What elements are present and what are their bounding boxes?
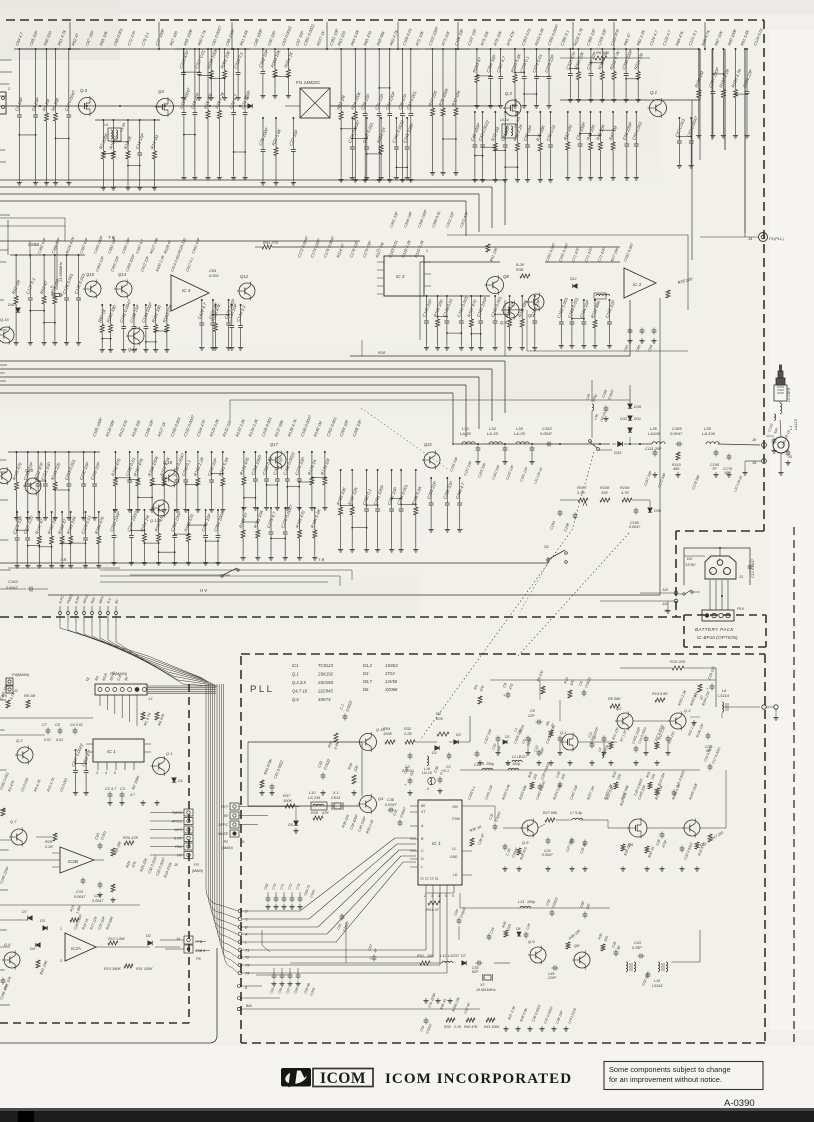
transistor Q15: [85, 281, 101, 297]
tier2 mid part R97: [101, 305, 103, 325]
svg-text:3: 3: [96, 771, 98, 775]
svg-text:P1(MAIN): P1(MAIN): [110, 671, 128, 676]
ic IC1 PLL TC9123: [418, 800, 462, 885]
wire P6 feeds: [160, 939, 184, 941]
svg-text:IC2B: IC2B: [68, 859, 78, 864]
resistor R15 220 pll: [672, 666, 684, 670]
wire pll top rail: [248, 741, 362, 743]
transistor Q5: [505, 100, 521, 116]
diode D42: [16, 308, 20, 312]
tier3 midL part R169: [187, 510, 189, 534]
tier1 gapA part R199: [210, 49, 212, 71]
svg-text:S1: S1: [544, 544, 549, 549]
transistor Q3 pll: [670, 713, 686, 729]
tier2 right part C152: [480, 296, 482, 319]
tier1 midE part R223: [476, 49, 478, 75]
capacitor C4 pll: [475, 752, 480, 754]
svg-text:Q.1: Q.1: [560, 730, 566, 735]
op-amp IC2A: [65, 933, 96, 961]
tier3 mid part R161: [222, 452, 224, 478]
wire filter line y444: [452, 443, 610, 445]
tier2 right part C145: [426, 296, 428, 319]
wire pll mid rail: [248, 805, 360, 807]
tier2 midB part C140: [231, 305, 233, 324]
main unit dashed border bottom: [0, 616, 684, 618]
svg-text:6: 6: [452, 894, 454, 898]
svg-text:0.0047: 0.0047: [385, 803, 398, 807]
tier1 midC part R24: [354, 49, 356, 112]
tier3 leftB part R154: [98, 512, 100, 536]
tier3 midB part R171: [243, 452, 245, 477]
wire ties tier1 gapB: [275, 75, 288, 77]
svg-text:Q2: Q2: [616, 706, 622, 711]
transistor Q2 mic: [17, 747, 33, 763]
wire ties tier2 rightB: [572, 318, 584, 320]
filter FI1 14M22C: [300, 88, 330, 118]
ic IC3: [384, 256, 424, 296]
svg-text:L15: L15: [654, 979, 661, 983]
wire J4 drop: [744, 120, 746, 237]
diode D1 main: [172, 778, 176, 782]
tier3 mid part C242: [211, 452, 213, 478]
svg-text:13.8V: 13.8V: [685, 562, 696, 567]
tier1 midC part R22: [340, 49, 342, 112]
wire af mid: [0, 859, 60, 861]
capacitor C165: [634, 509, 639, 511]
svg-text:HV: HV: [177, 854, 183, 858]
svg-text:V60: V60: [452, 805, 458, 809]
inductor L29 column: [592, 404, 594, 411]
svg-text:Q.3: Q.3: [684, 708, 691, 713]
tier3 left part C211: [37, 452, 39, 482]
wire bus tier1 left: [14, 48, 80, 50]
wire ties tier3 midBB: [243, 521, 258, 523]
tier1 right part C50: [550, 112, 552, 143]
wire tier2 feed: [255, 246, 262, 248]
svg-text:PLL: PLL: [250, 684, 274, 695]
tier1 midB part C26: [262, 118, 264, 148]
tier1 rightB part R42: [567, 112, 569, 142]
left edge clipped stubs: [0, 59, 12, 61]
tier1 left part R5: [46, 49, 48, 113]
svg-text:R18: R18: [378, 350, 386, 355]
svg-text:SSB&: SSB&: [28, 242, 39, 247]
diode D33: [618, 442, 623, 447]
gnd pll bottom: [505, 1026, 507, 1029]
capacitor C39 220: [408, 779, 413, 781]
wire HV rail: [48, 594, 660, 596]
tier1 gapC part R214: [637, 49, 639, 72]
tier2 right part R108: [509, 296, 511, 319]
tier3 midL part C243: [113, 510, 115, 534]
tier2 midB part R105: [214, 305, 216, 324]
svg-text:R41 100K: R41 100K: [484, 1025, 500, 1029]
svg-text:0.0047: 0.0047: [92, 899, 104, 903]
tier3 midC part C282: [391, 470, 393, 507]
capacitor C53 82P: [477, 961, 479, 966]
svg-text:C: C: [421, 849, 424, 853]
capacitor C20 5P: [706, 734, 711, 736]
svg-text:APC: APC: [173, 828, 182, 832]
capacitor C65 group: [628, 329, 633, 331]
svg-text:Q.7: Q.7: [10, 819, 17, 824]
svg-text:A: A: [420, 824, 424, 828]
transistor Q20: [25, 478, 41, 494]
svg-text:L9: L9: [104, 123, 108, 127]
wire bus A y180: [0, 179, 505, 181]
svg-text:Q12: Q12: [240, 274, 249, 279]
wire to J6: [640, 443, 652, 445]
op-amp IC2: [624, 268, 656, 298]
svg-text:IC 1: IC 1: [107, 749, 116, 755]
resistor R55 3.3M: [334, 733, 338, 742]
tier2 left part R93: [43, 255, 45, 296]
relay contact S3: [589, 440, 592, 443]
resistor R10 100: [568, 690, 572, 698]
svg-text:R26 47K: R26 47K: [123, 835, 139, 840]
svg-text:Q.9: Q.9: [500, 320, 507, 325]
logo ICOM boxed text: [313, 1069, 373, 1087]
svg-text:22C945: 22C945: [317, 689, 333, 694]
wire bus D y201: [0, 200, 466, 202]
svg-text:D32: D32: [620, 417, 628, 421]
diode D3 D4: [43, 926, 47, 930]
tier2 mid part R101: [155, 305, 157, 325]
svg-text:J5: J5: [173, 863, 178, 867]
wire ties tier3 leftB: [17, 529, 28, 531]
wire bundle to PLL: [60, 622, 202, 678]
tier3 midL part R167: [158, 510, 160, 534]
main unit inner dashed boundary: [188, 684, 190, 1023]
svg-text:BATTERY PACK: BATTERY PACK: [695, 627, 734, 632]
wire P3 feeds: [150, 812, 184, 814]
tier1 mid part C24: [244, 49, 246, 111]
tier3 midBB part R179: [242, 508, 244, 530]
wire ties tier1 gapA: [184, 71, 200, 73]
svg-text:A-0390: A-0390: [724, 1098, 755, 1109]
svg-text:IC 4: IC 4: [182, 288, 191, 293]
transistor Q2 pll: [617, 713, 633, 729]
svg-text:FMSS: FMSS: [172, 811, 183, 815]
svg-text:R14 5.6K: R14 5.6K: [652, 692, 668, 696]
diode D1 pll: [435, 746, 439, 750]
svg-text:R13 390K: R13 390K: [104, 967, 121, 971]
connector J5: [773, 437, 789, 453]
tier1 midD part R32: [455, 49, 457, 108]
wire lowerleft bus1: [0, 717, 93, 719]
svg-text:220P: 220P: [547, 976, 557, 980]
wire pll q2 links: [578, 741, 617, 743]
svg-text:J10: J10: [661, 588, 669, 592]
svg-text:L: L: [421, 865, 423, 869]
svg-text:0.0047: 0.0047: [74, 895, 86, 899]
capacitor C176: [727, 455, 732, 457]
tier2 mid part C131: [123, 305, 125, 325]
svg-text:LA-35: LA-35: [514, 431, 525, 436]
diode D2 af: [148, 941, 152, 945]
tier1 midE part C364: [490, 49, 492, 75]
svg-text:Q.3: Q.3: [80, 88, 88, 93]
transistor Q5 pll: [522, 820, 538, 836]
tier1 gapA part C315: [183, 49, 185, 71]
capacitor C28b: [660, 833, 665, 835]
tier1 gapD part C341: [395, 118, 397, 145]
tier1 left part C6: [18, 49, 20, 113]
svg-text:0.1: 0.1: [444, 769, 449, 773]
tier2 midgap part C423: [228, 300, 230, 321]
tier1 mid part C18: [194, 49, 196, 111]
wire bus tier1 midD: [425, 48, 470, 50]
wire P1 drop: [99, 695, 101, 706]
connector P16: [702, 610, 734, 621]
connector J9: [762, 459, 767, 464]
main unit dashed border jog vertical: [675, 531, 677, 617]
gnd row IC1: [109, 800, 111, 803]
tier1 left part C8: [35, 49, 37, 113]
wire ties tier1 leftB: [103, 153, 113, 155]
svg-text:R38: R38: [516, 267, 524, 272]
wire bus tier1 mid: [175, 48, 250, 50]
tier3 midB part C268: [286, 452, 288, 477]
tier1 rightB part R46: [599, 112, 601, 142]
svg-text:Q17: Q17: [270, 442, 279, 447]
svg-text:0: 0: [427, 787, 429, 791]
tier3 leftB part R150: [51, 512, 53, 536]
svg-text:IC 2: IC 2: [633, 282, 642, 287]
transistor Q1 main: [153, 758, 170, 775]
svg-text:22P: 22P: [527, 714, 535, 718]
svg-text:0.01: 0.01: [56, 738, 63, 742]
wire plug to P16: [709, 580, 711, 610]
wire mid bus 3: [0, 384, 466, 386]
svg-text:IC1: IC1: [292, 663, 299, 668]
svg-text:Q21: Q21: [424, 442, 432, 447]
wire bus tier2 left: [10, 254, 85, 256]
ic IC1 main: [93, 739, 144, 762]
tier2 right part C159: [534, 296, 536, 319]
resistor R9 470: [541, 686, 545, 694]
resistor R8 56K: [610, 704, 620, 708]
capacitor C27 33P: [570, 839, 575, 841]
svg-text:Q.2: Q.2: [16, 738, 23, 743]
tier3 midL part C252: [205, 510, 207, 534]
svg-text:T4: T4: [245, 972, 249, 976]
resistor R6 100: [595, 56, 607, 60]
svg-text:100K: 100K: [283, 798, 292, 803]
tier1 gapB part C322: [262, 49, 264, 70]
tier2 left part R94: [54, 255, 56, 296]
svg-text:C4: C4: [474, 763, 479, 767]
resistor bottom row: [446, 1018, 455, 1022]
tier1 rightB part C56: [626, 112, 628, 142]
tier3 midC part C284: [400, 470, 402, 507]
svg-text:D42: D42: [8, 302, 16, 307]
svg-text:J4: J4: [175, 937, 180, 941]
logo ICOM badge: [281, 1068, 311, 1087]
tier1 leftB part R10: [112, 120, 114, 151]
svg-text:0.0047: 0.0047: [6, 586, 19, 590]
tier3 leftB part R152: [61, 512, 63, 536]
svg-text:FI1 14M22C: FI1 14M22C: [296, 80, 321, 85]
inductor L12 LS237: [442, 961, 453, 963]
svg-text:for an improvement without not: for an improvement without notice.: [609, 1075, 722, 1084]
tier3 midBB part R184: [314, 508, 316, 530]
svg-text:IC 3: IC 3: [396, 274, 405, 279]
connector J10: [674, 591, 678, 595]
tier2 midB part C144: [240, 305, 242, 324]
resistor R38 8.2K: [520, 274, 530, 278]
capacitor C2 pll: [447, 754, 452, 756]
transistor Q1 pll: [562, 734, 578, 750]
svg-text:S.RF: S.RF: [174, 837, 183, 841]
svg-text:R15 220: R15 220: [670, 659, 686, 664]
inductor L16: [427, 756, 429, 766]
tier3 leftB part C223: [16, 512, 18, 536]
svg-text:Q.16: Q.16: [0, 317, 9, 322]
wire mid bus 2: [0, 376, 479, 378]
tier1 leftB part R11: [127, 120, 129, 151]
svg-text:Q8: Q8: [503, 274, 509, 279]
op-amp IC4: [171, 275, 209, 311]
svg-text:100µ: 100µ: [527, 900, 535, 904]
inductor L17 pll: [430, 778, 432, 785]
wire tier2 right bus: [420, 295, 490, 297]
tier1 leftB part R14: [154, 120, 156, 151]
svg-text:R8 56K: R8 56K: [608, 697, 621, 701]
transistor Q6 af: [4, 952, 20, 968]
svg-text:R11 100K: R11 100K: [136, 967, 153, 971]
tier1 gapB part R204: [287, 49, 289, 70]
tier3 mid part C232: [129, 452, 131, 478]
tier3 midB part C264: [276, 452, 278, 477]
op-amp IC2B: [60, 847, 94, 873]
tier2 mid part C136: [145, 305, 147, 325]
resistor R108 33K: [600, 498, 610, 502]
svg-text:5: 5: [114, 771, 116, 775]
tier2 right part R107: [470, 296, 472, 319]
svg-text:R36: R36: [311, 811, 319, 815]
tier3 midL part C250: [174, 510, 176, 534]
tier3 left part C222: [94, 452, 96, 482]
coil T2 pll: [626, 962, 628, 972]
wire TB line: [0, 240, 360, 242]
transistor Q17: [270, 452, 286, 468]
svg-text:F7 B: F7 B: [195, 940, 203, 944]
svg-text:3: 3: [431, 894, 433, 898]
svg-text:0.0047: 0.0047: [540, 431, 553, 436]
transistor Q8 pll: [574, 952, 590, 968]
tier1 midD part R27: [432, 49, 434, 108]
transistor Q10b: [528, 294, 544, 310]
transistor Q10 pll: [360, 734, 377, 751]
capacitor C169: [29, 587, 31, 592]
wire ties tier1 rightB: [580, 133, 591, 135]
wire long R18 line: [350, 355, 630, 357]
tier1 gapA part C317: [198, 49, 200, 71]
svg-text:2.2K: 2.2K: [403, 731, 412, 736]
svg-text:R39: R39: [444, 1025, 450, 1029]
mic amp bias part C350: [85, 750, 87, 769]
svg-text:L12: L12: [440, 954, 447, 958]
wire ties tier1 far right top: [713, 73, 724, 75]
wire mid bus 1: [0, 368, 492, 370]
svg-text:13V50: 13V50: [385, 679, 398, 684]
capacitor C19 100: [710, 685, 715, 687]
svg-text:L7 5.6µ: L7 5.6µ: [570, 811, 582, 815]
tier1 mid part R18: [218, 49, 220, 111]
wire ties tier1 mid: [184, 134, 195, 136]
transistor Q4 pll: [360, 796, 377, 813]
svg-text:LN-19: LN-19: [422, 771, 432, 775]
DC plug J1: [705, 556, 736, 579]
transistor Q8: [487, 277, 504, 294]
svg-text:D4: D4: [30, 947, 35, 951]
svg-text:2: 2: [722, 571, 725, 575]
tier3 midB part C260: [266, 452, 268, 477]
wire R6 link: [560, 57, 595, 59]
tier3 midC part R185: [340, 470, 342, 507]
svg-text:13.950MHz: 13.950MHz: [58, 262, 63, 282]
capacitor C111 20P: [653, 451, 658, 453]
wire ties tier1 midE: [477, 75, 491, 77]
tier3 midL part C254: [217, 510, 219, 534]
transistor Q4: [157, 99, 174, 116]
svg-text:H V: H V: [200, 588, 208, 593]
tier3 midL part C247: [130, 510, 132, 534]
svg-text:Q.6: Q.6: [4, 942, 11, 947]
svg-text:XT: XT: [420, 810, 426, 814]
connector pll out pins: [762, 705, 766, 709]
svg-text:D33: D33: [614, 450, 622, 455]
capacitor C49 220P: [553, 966, 555, 971]
tier1 gapC part R206: [578, 49, 580, 72]
svg-text:R8 1M: R8 1M: [24, 694, 36, 698]
wire ties tier2 right: [438, 315, 447, 317]
wire bus tier1 midC: [335, 48, 420, 50]
svg-text:J6: J6: [751, 437, 757, 442]
svg-text:D39: D39: [634, 405, 642, 409]
svg-text:X2: X2: [479, 983, 485, 987]
capacitor group C65-C68: [272, 974, 277, 976]
inductor L8 100u: [508, 768, 519, 770]
tier2 midgap part C420: [201, 300, 203, 321]
svg-text:0.001: 0.001: [209, 273, 219, 278]
tier1 mid part C21: [233, 49, 235, 111]
tier2 midgap part C422: [212, 300, 214, 321]
wire pll misc: [459, 893, 461, 908]
transistor Q7 af: [11, 829, 27, 845]
capacitor C33 0.0047: [81, 879, 86, 881]
capacitor C62 10P: [646, 973, 651, 975]
svg-text:L2 LB127: L2 LB127: [512, 755, 528, 759]
capacitor C6 0.0022: [582, 691, 587, 693]
svg-text:Q.3: Q.3: [505, 91, 512, 96]
tier1 far right top part C299: [746, 49, 748, 90]
capacitor C57 47: [372, 956, 377, 958]
svg-text:8.2K: 8.2K: [516, 262, 525, 267]
gnd pll osc: [261, 790, 263, 793]
svg-text:Q.5: Q.5: [522, 840, 529, 845]
tier1 midE part C374: [536, 49, 538, 75]
svg-text:4: 4: [105, 771, 107, 775]
diode D12: [573, 284, 577, 288]
tier2 left part R92: [15, 255, 17, 296]
svg-text:(MAIN): (MAIN): [192, 869, 203, 873]
svg-text:Q.6: Q.6: [292, 697, 299, 702]
tier1 right part R33: [494, 112, 496, 143]
crystal X1: [55, 294, 60, 297]
wire ties tier1 gapC: [570, 68, 578, 70]
